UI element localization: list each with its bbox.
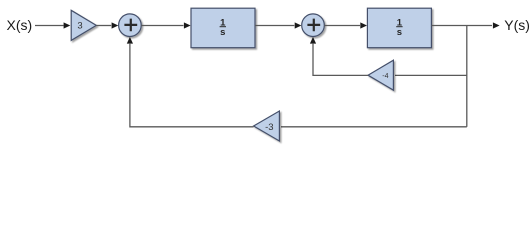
summing junction S1 [119,14,142,37]
wire tap to gain -4 [395,74,467,76]
svg-text:Y(s): Y(s) [504,17,530,33]
svg-text:-4: -4 [382,73,388,80]
gain block 3 (triangle) [71,10,96,40]
wire input to gain 3 [35,25,64,27]
svg-text:s: s [220,27,225,38]
integrator block 1 (1/s) [191,8,255,48]
svg-text:s: s [397,27,402,38]
wire feedback vertical drop from tap [466,26,468,127]
integrator block 2 (1/s) [367,8,431,48]
wire gain -4 to S2 (up) [313,44,368,76]
wire gain3 to summer S1 [96,25,111,27]
wire S2 to integrator block 2 [324,25,360,27]
wire block2 to output Y(s) [431,25,492,27]
svg-text:X(s): X(s) [7,17,33,33]
summing junction S2 [302,14,325,37]
svg-text:3: 3 [77,21,82,32]
wire S1 to integrator block 1 [141,25,183,27]
wire tap to gain -3 [281,126,467,128]
gain block -3 (triangle, points left) [254,111,280,141]
wire block1 to summer S2 [255,25,294,27]
gain block -4 (triangle, points left) [368,60,393,90]
wire gain -3 to S1 (up) [130,44,254,127]
svg-text:-3: -3 [265,122,273,133]
